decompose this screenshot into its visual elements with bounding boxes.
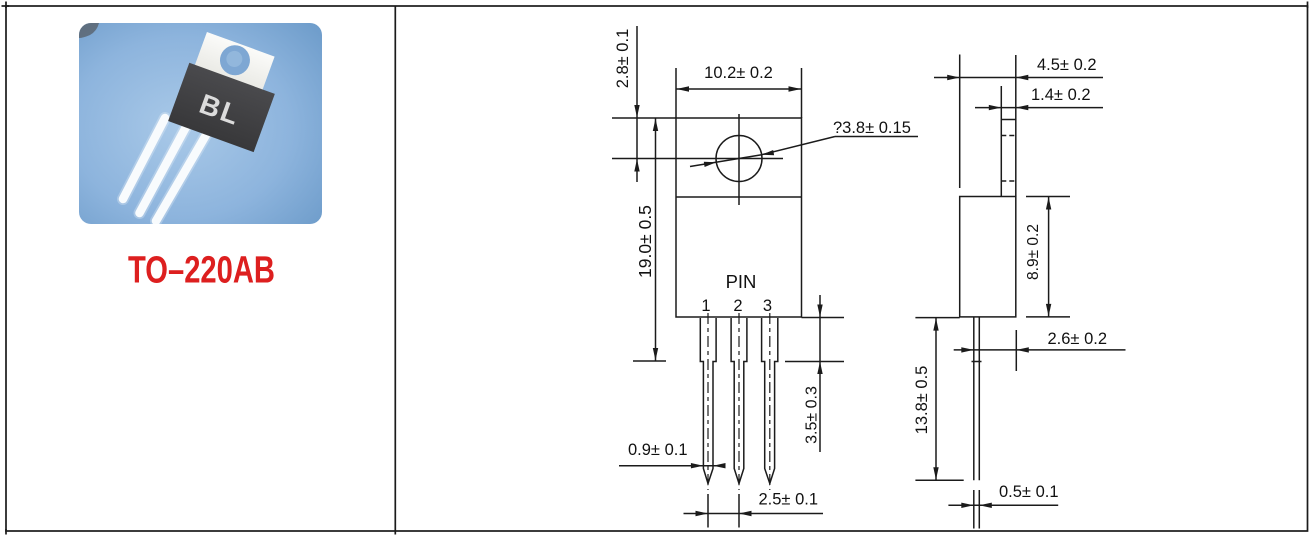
dim 8.9 ext lines <box>1026 196 1070 198</box>
arrow 19.0 top <box>653 119 658 132</box>
arrow 0.5 left <box>961 503 974 508</box>
arrow 2.8 top <box>634 105 639 118</box>
arrow 2.5 left <box>696 511 709 516</box>
tab/body divider <box>676 196 802 198</box>
arrow 13.8 bottom <box>933 467 938 480</box>
arrow 13.8 top <box>933 318 938 331</box>
side view arrowheads <box>933 75 1051 508</box>
dim 13.8 line <box>935 318 937 481</box>
svg-text:3.5± 0.3: 3.5± 0.3 <box>804 386 821 444</box>
dim 2.5 line <box>684 513 824 515</box>
arrow 1.4 left <box>989 105 1002 110</box>
hole vertical centerline <box>738 114 740 205</box>
svg-text:0.9± 0.1: 0.9± 0.1 <box>628 441 688 459</box>
photo: blue background <box>79 23 322 224</box>
arrow hole leader left <box>704 162 717 167</box>
svg-text:19.0± 0.5: 19.0± 0.5 <box>635 205 655 278</box>
svg-text:10.2± 0.2: 10.2± 0.2 <box>704 64 773 82</box>
side lead ext below <box>973 490 975 529</box>
arrow 2.6 right <box>1016 347 1029 352</box>
ext line left of side (4.5) <box>959 55 961 189</box>
arrow 19.0 bottom <box>653 348 658 361</box>
front view labels <box>614 29 911 509</box>
side tab right edge <box>1015 55 1017 197</box>
front body outline <box>676 118 802 317</box>
svg-text:?3.8± 0.15: ?3.8± 0.15 <box>833 119 911 137</box>
side body outline <box>960 197 1016 317</box>
ext lines above body <box>675 68 677 118</box>
arrow 10.2 right <box>789 86 802 91</box>
arrow 4.5 right <box>1016 75 1029 80</box>
dim 13.8 ext lines <box>915 317 959 319</box>
arrow 8.9 top <box>1046 197 1051 210</box>
dim line 10.2 <box>676 88 802 90</box>
arrow 2.6 left <box>961 347 974 352</box>
side lead edges <box>973 317 975 480</box>
dim 0.5 line <box>948 504 1058 506</box>
dim line 2.8 <box>636 26 638 182</box>
lead 2 outline <box>731 318 747 484</box>
arrow 3.5 top <box>817 305 822 318</box>
dim 1.4 line <box>975 107 1103 109</box>
table divider <box>394 6 396 535</box>
body top extension line <box>612 117 676 119</box>
svg-text:0.5± 0.1: 0.5± 0.1 <box>999 483 1059 501</box>
tick 19.0 bottom <box>633 360 666 362</box>
arrow 10.2 left <box>677 86 690 91</box>
svg-text:1.4± 0.2: 1.4± 0.2 <box>1031 86 1091 104</box>
svg-text:TO–220AB: TO–220AB <box>128 250 275 292</box>
dim 3.5 ext lines <box>802 317 845 319</box>
dim line 19.0 <box>655 118 657 361</box>
front view arrowheads <box>634 86 822 516</box>
arrow 3.5 bottom <box>817 362 822 375</box>
lead centerlines dashed <box>708 313 770 490</box>
arrow 0.9 right <box>713 463 726 468</box>
arrow 2.5 right <box>739 511 752 516</box>
arrow 0.9 left <box>691 463 704 468</box>
dim 2.5 ext lines <box>707 494 709 528</box>
svg-text:2.5± 0.1: 2.5± 0.1 <box>759 491 819 509</box>
dim 2.6 line <box>954 349 1126 351</box>
photo corner smudge <box>79 23 99 38</box>
arrow hole leader right <box>762 150 774 155</box>
hole horizontal centerline <box>612 158 783 160</box>
package molded body <box>168 63 275 152</box>
dim 0.9 line <box>619 465 726 467</box>
arrow 2.8 bottom <box>634 159 639 172</box>
dim 2.6 ext line <box>1015 330 1017 371</box>
side lead step tick <box>972 361 982 363</box>
svg-text:2: 2 <box>733 297 742 315</box>
svg-text:3: 3 <box>763 297 772 315</box>
svg-text:4.5± 0.2: 4.5± 0.2 <box>1037 56 1097 74</box>
svg-text:2.8± 0.1: 2.8± 0.1 <box>614 29 632 89</box>
arrow 0.5 right <box>979 503 992 508</box>
svg-text:1: 1 <box>701 297 710 315</box>
package legs <box>123 118 206 221</box>
arrow 8.9 bottom <box>1046 304 1051 317</box>
dim 8.9 line <box>1048 197 1050 317</box>
dim 3.5 line <box>819 295 821 452</box>
side view labels <box>913 56 1107 501</box>
dim 4.5 line <box>934 77 1103 79</box>
side tab step line <box>1001 119 1016 121</box>
side tab left edge <box>1000 86 1002 197</box>
lead 3 outline <box>762 318 778 484</box>
lead 1 outline <box>700 318 716 484</box>
side hole hidden lines <box>1001 136 1016 182</box>
arrow 4.5 left <box>947 75 960 80</box>
mounting hole <box>716 136 762 182</box>
svg-text:8.9± 0.2: 8.9± 0.2 <box>1025 224 1042 280</box>
svg-text:2.6± 0.2: 2.6± 0.2 <box>1048 330 1108 348</box>
package tab hole <box>216 41 254 79</box>
svg-text:PIN: PIN <box>726 271 757 292</box>
svg-text:13.8± 0.5: 13.8± 0.5 <box>913 366 931 435</box>
hole leader diagonal <box>690 155 762 167</box>
package metal tab <box>194 32 275 92</box>
arrow 1.4 right <box>1016 105 1029 110</box>
